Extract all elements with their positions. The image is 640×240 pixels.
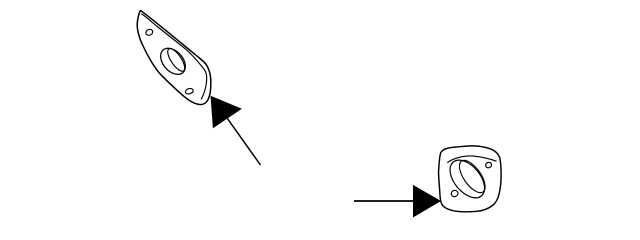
left plate bottom bolt hole	[185, 88, 194, 95]
left plate top bolt hole	[145, 28, 154, 36]
right arrowhead	[413, 185, 441, 218]
left gasket plate outer outline	[137, 11, 211, 105]
left plate center port bore inner oval	[165, 46, 188, 73]
right plate center port bore inner oval	[455, 156, 490, 197]
right plate bottom-left bolt hole	[450, 189, 459, 197]
right leader line	[354, 200, 420, 202]
right plate outer outline	[439, 146, 502, 212]
right plate center port outer oval	[443, 154, 491, 204]
left plate center port outer oval	[156, 43, 191, 79]
left leader line	[227, 119, 260, 166]
left arrowhead	[211, 96, 242, 129]
right plate top inner edge arc	[447, 156, 496, 163]
left plate inner thickness edge line	[141, 14, 206, 100]
right plate top-right bolt hole	[485, 162, 492, 169]
